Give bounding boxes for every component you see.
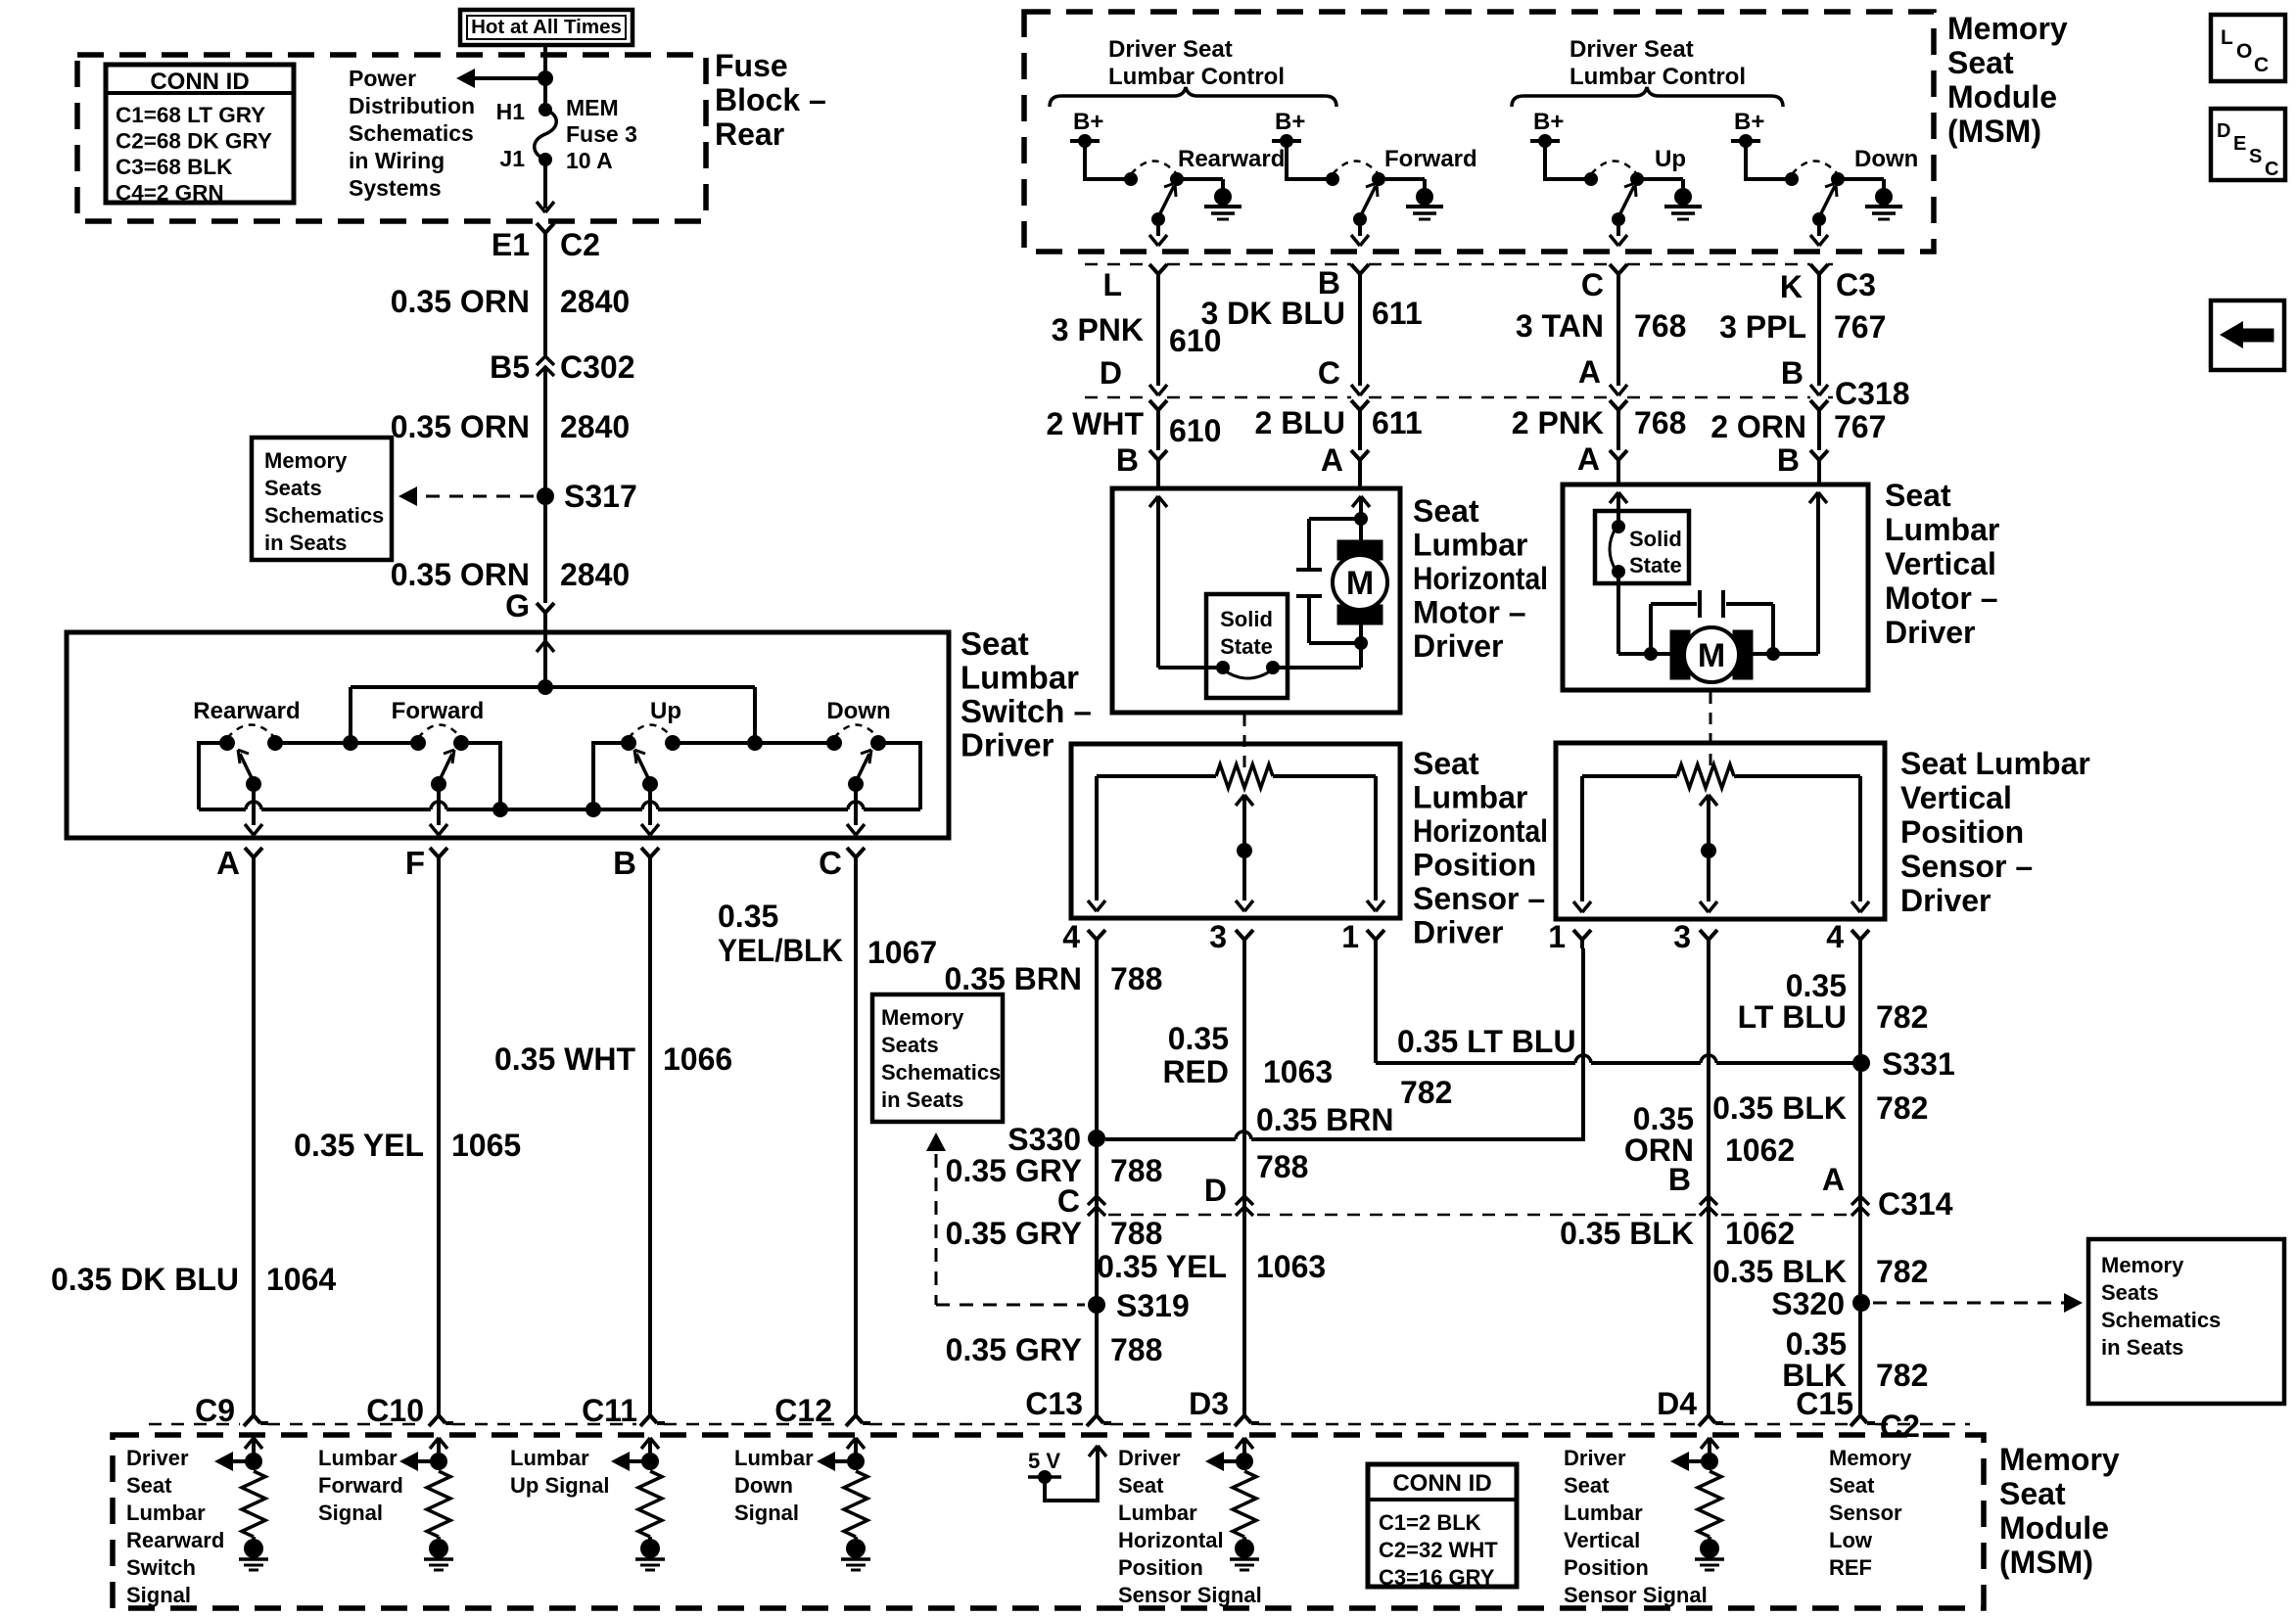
CONN ID table (fuse block) bbox=[106, 65, 294, 203]
svg-text:Rearward: Rearward bbox=[193, 698, 300, 724]
svg-text:Distribution: Distribution bbox=[349, 93, 475, 118]
svg-text:Lumbar Control: Lumbar Control bbox=[1108, 64, 1285, 90]
driver seat lumbar rearward switch signal input bbox=[245, 1438, 254, 1449]
motor M (horizontal) bbox=[1354, 636, 1368, 650]
svg-text:A: A bbox=[1577, 441, 1600, 477]
svg-text:2 BLU: 2 BLU bbox=[1255, 405, 1345, 440]
connector forks C9-C15 bbox=[244, 1415, 254, 1426]
svg-text:Motor –: Motor – bbox=[1885, 580, 1998, 616]
Forward movable contact bbox=[1353, 212, 1367, 226]
lumbar up signal input bbox=[641, 1438, 650, 1449]
svg-text:C3: C3 bbox=[1836, 267, 1876, 302]
svg-text:B: B bbox=[1781, 355, 1804, 391]
svg-text:Down: Down bbox=[734, 1473, 793, 1498]
svg-text:2 ORN: 2 ORN bbox=[1710, 409, 1806, 444]
wire sensor1 pin1 to S331 (0.35 LT BLU 782) bbox=[1374, 948, 1378, 1063]
svg-text:Up: Up bbox=[1655, 146, 1686, 172]
svg-text:0.35: 0.35 bbox=[1786, 968, 1847, 1003]
svg-text:Vertical: Vertical bbox=[1885, 546, 1996, 581]
potentiometer track (horizontal sensor) bbox=[1097, 774, 1216, 778]
svg-text:S: S bbox=[2249, 146, 2262, 167]
svg-text:782: 782 bbox=[1876, 1254, 1928, 1289]
svg-text:Block –: Block – bbox=[715, 82, 826, 117]
switch feed wire with up arrow bbox=[543, 632, 547, 687]
svg-text:Lumbar: Lumbar bbox=[1118, 1501, 1197, 1525]
svg-text:C12: C12 bbox=[774, 1393, 832, 1428]
switch pin A fork and wire bbox=[245, 848, 254, 857]
junction dot above fuse bbox=[538, 70, 553, 86]
suppression capacitor (horizontal motor) bbox=[1309, 517, 1361, 521]
svg-text:C: C bbox=[1318, 355, 1340, 391]
svg-text:Rearward: Rearward bbox=[1178, 146, 1285, 172]
svg-text:Lumbar: Lumbar bbox=[1413, 780, 1527, 815]
svg-text:0.35 BLK: 0.35 BLK bbox=[1712, 1090, 1847, 1126]
svg-text:Driver: Driver bbox=[1885, 615, 1976, 650]
svg-text:Low: Low bbox=[1829, 1528, 1873, 1552]
svg-text:0.35 DK BLU: 0.35 DK BLU bbox=[51, 1262, 239, 1297]
svg-text:K: K bbox=[1780, 269, 1803, 304]
brace 1 bbox=[1050, 87, 1336, 107]
svg-text:4: 4 bbox=[1826, 919, 1844, 954]
svg-text:D4: D4 bbox=[1657, 1386, 1697, 1421]
svg-text:Lumbar: Lumbar bbox=[734, 1446, 814, 1470]
splice S317 bbox=[537, 487, 554, 505]
svg-text:E: E bbox=[2233, 133, 2246, 155]
Memory Seats Schematics in Seats box (left) bbox=[252, 438, 392, 560]
svg-text:2840: 2840 bbox=[560, 409, 630, 444]
svg-text:S320: S320 bbox=[1771, 1286, 1845, 1321]
MSM connector C318 dashed line bbox=[1085, 396, 1149, 399]
svg-text:Position: Position bbox=[1118, 1555, 1203, 1580]
track left leg (v) bbox=[1580, 776, 1584, 901]
svg-text:Lumbar: Lumbar bbox=[1885, 512, 1999, 547]
svg-text:782: 782 bbox=[1876, 999, 1928, 1035]
svg-text:1063: 1063 bbox=[1263, 1054, 1333, 1089]
svg-text:L: L bbox=[1102, 267, 1122, 302]
svg-text:Memory: Memory bbox=[1829, 1446, 1912, 1470]
svg-text:Seat: Seat bbox=[1413, 746, 1479, 781]
svg-text:Schematics: Schematics bbox=[2101, 1308, 2221, 1332]
svg-text:Down: Down bbox=[826, 698, 890, 724]
motor M (vertical) bbox=[1670, 630, 1690, 679]
track right leg bbox=[1374, 776, 1378, 901]
svg-text:B: B bbox=[1777, 442, 1800, 478]
Down movable contact bbox=[1812, 212, 1826, 226]
svg-text:Lumbar: Lumbar bbox=[1564, 1501, 1643, 1525]
Down switch bbox=[826, 735, 842, 751]
Forward switch contacts bbox=[1326, 172, 1339, 186]
wire sensor2 pin4 down (LT BLU/BLK 782) bbox=[1858, 948, 1862, 1415]
bus junction dot bbox=[538, 679, 553, 695]
splice S320 bbox=[1852, 1294, 1870, 1312]
svg-text:C9: C9 bbox=[195, 1393, 235, 1428]
Seat Lumbar Switch - Driver box bbox=[67, 632, 949, 838]
svg-text:C2=32 WHT: C2=32 WHT bbox=[1379, 1538, 1498, 1562]
splice S330 bbox=[1088, 1130, 1105, 1147]
svg-text:Position: Position bbox=[1413, 848, 1536, 883]
svg-text:Memory: Memory bbox=[1999, 1442, 2120, 1477]
svg-text:Driver Seat: Driver Seat bbox=[1570, 36, 1694, 63]
pin K fork / connector C3 bbox=[1810, 264, 1819, 274]
svg-text:B+: B+ bbox=[1073, 109, 1103, 135]
wire 3 DK BLU 611 bbox=[1358, 283, 1362, 386]
wire 3 TAN 768 bbox=[1617, 283, 1620, 386]
svg-text:Seats: Seats bbox=[881, 1033, 939, 1057]
svg-text:Position: Position bbox=[1564, 1555, 1649, 1580]
svg-text:C: C bbox=[819, 845, 842, 881]
svg-text:Schematics: Schematics bbox=[349, 120, 474, 146]
svg-text:YEL/BLK: YEL/BLK bbox=[718, 933, 843, 968]
svg-text:B+: B+ bbox=[1275, 109, 1305, 135]
splice S319 bbox=[1088, 1296, 1105, 1314]
svg-text:B: B bbox=[1116, 442, 1139, 478]
svg-text:Driver: Driver bbox=[1900, 883, 1991, 918]
svg-text:Driver Seat: Driver Seat bbox=[1108, 36, 1233, 63]
C314 dashed connector line bbox=[1108, 1214, 1232, 1217]
track right leg (v) bbox=[1858, 776, 1862, 901]
svg-text:Position: Position bbox=[1900, 814, 2024, 850]
svg-text:Up Signal: Up Signal bbox=[510, 1473, 609, 1498]
svg-text:768: 768 bbox=[1634, 405, 1686, 440]
svg-text:Lumbar: Lumbar bbox=[961, 660, 1079, 696]
bottom connector dashed line bbox=[149, 1423, 240, 1426]
svg-text:C3=68 BLK: C3=68 BLK bbox=[116, 155, 233, 179]
sensor1 pin 4 bbox=[1088, 930, 1097, 940]
svg-text:Lumbar: Lumbar bbox=[1413, 528, 1527, 563]
svg-text:Driver: Driver bbox=[1413, 628, 1504, 664]
splice S331 bbox=[1852, 1054, 1870, 1072]
svg-text:0.35 WHT: 0.35 WHT bbox=[494, 1041, 635, 1077]
ground (Down) bbox=[1875, 188, 1893, 206]
svg-text:3: 3 bbox=[1209, 919, 1227, 954]
svg-text:Horizontal: Horizontal bbox=[1118, 1528, 1224, 1552]
solid state contacts bbox=[1216, 661, 1230, 674]
svg-text:Memory: Memory bbox=[1947, 11, 2068, 46]
suppression capacitor (vertical motor) bbox=[1649, 604, 1653, 654]
Hot at All Times box bbox=[460, 10, 633, 45]
pin C fork bbox=[1610, 264, 1618, 274]
svg-text:Seat: Seat bbox=[961, 625, 1029, 662]
svg-text:Horizontal: Horizontal bbox=[1413, 813, 1548, 849]
svg-text:0.35: 0.35 bbox=[1633, 1101, 1694, 1136]
svg-text:Up: Up bbox=[650, 698, 681, 724]
svg-text:M: M bbox=[1698, 637, 1725, 674]
svg-text:788: 788 bbox=[1110, 1216, 1162, 1251]
ground (Up) bbox=[1674, 188, 1692, 206]
svg-text:M: M bbox=[1346, 565, 1374, 602]
dashed arrow S319 to memory seats schematics (up) bbox=[935, 1154, 938, 1305]
Down switch contacts bbox=[1785, 172, 1799, 186]
MSM connector C3 dashed line bbox=[1085, 263, 1149, 266]
svg-text:C2: C2 bbox=[1880, 1409, 1920, 1444]
svg-text:C15: C15 bbox=[1796, 1386, 1853, 1421]
svg-text:611: 611 bbox=[1372, 405, 1423, 440]
wire 2 BLU 611 bbox=[1358, 419, 1362, 450]
Memory Seats Schematics in Seats box (right) bbox=[2088, 1239, 2284, 1404]
wire solid state to motor bbox=[1273, 666, 1361, 670]
svg-text:0.35 GRY: 0.35 GRY bbox=[946, 1216, 1082, 1251]
svg-text:Switch: Switch bbox=[126, 1555, 196, 1580]
Seat Lumbar Horizontal Position Sensor - Driver box bbox=[1071, 744, 1400, 918]
svg-text:768: 768 bbox=[1634, 308, 1686, 344]
svg-text:MEM: MEM bbox=[566, 95, 619, 120]
svg-text:S317: S317 bbox=[564, 479, 637, 514]
svg-text:Fuse: Fuse bbox=[715, 48, 788, 83]
svg-text:A: A bbox=[1321, 442, 1343, 478]
svg-text:0.35 YEL: 0.35 YEL bbox=[294, 1128, 424, 1163]
svg-text:Switch –: Switch – bbox=[961, 693, 1092, 729]
svg-text:C: C bbox=[1581, 267, 1604, 302]
svg-text:Sensor –: Sensor – bbox=[1413, 881, 1545, 916]
svg-text:0.35 ORN: 0.35 ORN bbox=[391, 557, 530, 592]
wire 2 WHT 610 bbox=[1156, 419, 1160, 450]
svg-text:A: A bbox=[1578, 354, 1601, 390]
dashed arrow to memory seats schematics bbox=[417, 495, 534, 498]
sensor2 pin 4 bbox=[1851, 930, 1860, 940]
svg-text:1062: 1062 bbox=[1725, 1216, 1795, 1251]
switch lower common line with jumps bbox=[199, 808, 246, 811]
svg-text:767: 767 bbox=[1834, 409, 1886, 444]
svg-text:C: C bbox=[2265, 159, 2278, 180]
svg-text:C302: C302 bbox=[560, 349, 635, 385]
svg-text:767: 767 bbox=[1834, 309, 1886, 345]
switch common bus bbox=[351, 685, 755, 689]
svg-text:4: 4 bbox=[1062, 919, 1080, 954]
dashed link vertical motor to sensor bbox=[1710, 692, 1712, 773]
svg-text:Signal: Signal bbox=[734, 1501, 799, 1525]
dashed link motor to position sensor bbox=[1243, 715, 1246, 773]
svg-text:2 WHT: 2 WHT bbox=[1046, 406, 1144, 441]
fuse MEM Fuse 3 10A bbox=[539, 103, 552, 116]
arrow to power distribution schematics bbox=[474, 76, 545, 80]
svg-text:782: 782 bbox=[1876, 1090, 1928, 1126]
solid state contacts (vertical) bbox=[1612, 520, 1625, 533]
svg-text:Schematics: Schematics bbox=[264, 503, 384, 528]
svg-text:C318: C318 bbox=[1835, 376, 1910, 411]
svg-text:CONN ID: CONN ID bbox=[150, 69, 249, 95]
wiper (vertical sensor) bbox=[1700, 795, 1709, 806]
svg-text:1: 1 bbox=[1341, 919, 1359, 954]
svg-text:Vertical: Vertical bbox=[1900, 780, 2012, 815]
svg-text:REF: REF bbox=[1829, 1555, 1872, 1580]
svg-text:C1=68 LT GRY: C1=68 LT GRY bbox=[116, 103, 265, 127]
svg-text:G: G bbox=[505, 588, 530, 624]
svg-text:Module: Module bbox=[1947, 79, 2057, 115]
svg-text:Forward: Forward bbox=[318, 1473, 403, 1498]
wire sensor2 pin3 down (ORN/BLK 1062) bbox=[1707, 948, 1710, 1415]
back arrow icon bbox=[2211, 300, 2284, 370]
connector C2 pin E1 fork bbox=[537, 223, 545, 233]
Seat Lumbar Vertical Motor - Driver box bbox=[1563, 485, 1868, 690]
driver seat lumbar horizontal position sensor signal input bbox=[1236, 1438, 1244, 1449]
svg-text:Seat Lumbar: Seat Lumbar bbox=[1900, 746, 2090, 781]
svg-text:Forward: Forward bbox=[392, 698, 485, 724]
Fuse Block - Rear dashed enclosure bbox=[77, 55, 706, 221]
wire from Hot at All Times into fuse block bbox=[543, 45, 547, 110]
svg-text:Module: Module bbox=[1999, 1510, 2109, 1546]
connector C314 pin D bbox=[1236, 1196, 1253, 1205]
svg-text:788: 788 bbox=[1110, 961, 1162, 996]
svg-text:C13: C13 bbox=[1025, 1386, 1083, 1421]
pin A internal arrow (vertical motor) bbox=[1610, 492, 1618, 503]
Down movable contact bbox=[848, 776, 864, 792]
motor pin A fork bbox=[1351, 450, 1360, 460]
svg-text:Seat: Seat bbox=[1564, 1473, 1610, 1498]
svg-text:L: L bbox=[2221, 26, 2233, 49]
svg-text:611: 611 bbox=[1372, 296, 1423, 331]
svg-text:Driver: Driver bbox=[961, 727, 1054, 763]
svg-text:in Seats: in Seats bbox=[881, 1087, 963, 1112]
svg-text:Hot at All Times: Hot at All Times bbox=[471, 16, 622, 38]
svg-text:LT BLU: LT BLU bbox=[1738, 999, 1847, 1035]
wire fuse to fuse block edge with arrow bbox=[543, 160, 547, 208]
svg-text:0.35: 0.35 bbox=[1168, 1021, 1229, 1056]
svg-text:3 PPL: 3 PPL bbox=[1719, 309, 1806, 345]
svg-text:C2=68 DK GRY: C2=68 DK GRY bbox=[116, 129, 272, 154]
svg-text:in Wiring: in Wiring bbox=[349, 148, 445, 173]
svg-text:1066: 1066 bbox=[663, 1041, 732, 1077]
svg-text:1062: 1062 bbox=[1725, 1132, 1795, 1168]
wire 3 PPL 767 bbox=[1817, 283, 1821, 386]
svg-text:(MSM): (MSM) bbox=[1999, 1545, 2093, 1580]
svg-text:C11: C11 bbox=[582, 1393, 637, 1428]
svg-text:782: 782 bbox=[1400, 1075, 1452, 1110]
svg-text:0.35 BLK: 0.35 BLK bbox=[1560, 1216, 1694, 1251]
bus left drop bbox=[349, 687, 352, 743]
motor right wire (vertical) bbox=[1753, 652, 1818, 656]
svg-text:CONN ID: CONN ID bbox=[1392, 1470, 1491, 1497]
wire 0.35 ORN 2840 (lower) bbox=[543, 496, 547, 603]
svg-text:J1: J1 bbox=[499, 146, 525, 171]
svg-text:0.35 BLK: 0.35 BLK bbox=[1712, 1254, 1847, 1289]
svg-text:D: D bbox=[1100, 355, 1122, 391]
svg-text:C2: C2 bbox=[560, 227, 600, 262]
ground (Rearward) bbox=[1214, 188, 1232, 206]
svg-text:Rearward: Rearward bbox=[126, 1528, 224, 1552]
svg-text:A: A bbox=[216, 845, 240, 881]
svg-text:Memory: Memory bbox=[881, 1005, 964, 1030]
svg-text:C: C bbox=[1057, 1183, 1080, 1219]
Up movable contact bbox=[1612, 212, 1625, 226]
svg-text:State: State bbox=[1220, 634, 1273, 659]
svg-text:S319: S319 bbox=[1116, 1288, 1190, 1323]
svg-text:Lumbar: Lumbar bbox=[126, 1501, 206, 1525]
svg-text:Seat: Seat bbox=[1947, 45, 2014, 80]
svg-text:Sensor Signal: Sensor Signal bbox=[1118, 1583, 1262, 1607]
Solid State box (horizontal motor) bbox=[1206, 594, 1288, 698]
motor pin B fork (vertical) bbox=[1810, 450, 1819, 460]
wire 2 PNK 768 bbox=[1617, 419, 1620, 450]
svg-text:0.35 BRN: 0.35 BRN bbox=[945, 961, 1083, 996]
svg-text:1063: 1063 bbox=[1256, 1249, 1326, 1284]
svg-text:782: 782 bbox=[1876, 1358, 1928, 1393]
lumbar forward signal input bbox=[430, 1438, 439, 1449]
svg-text:1: 1 bbox=[1548, 919, 1566, 954]
svg-text:H1: H1 bbox=[496, 99, 526, 124]
svg-text:Forward: Forward bbox=[1384, 146, 1477, 172]
pin C arrow and fork bbox=[1351, 385, 1360, 395]
svg-text:3 DK BLU: 3 DK BLU bbox=[1200, 296, 1345, 331]
svg-text:Solid: Solid bbox=[1629, 527, 1682, 551]
Rearward switch bbox=[219, 735, 235, 751]
svg-text:RED: RED bbox=[1162, 1054, 1229, 1089]
svg-text:788: 788 bbox=[1256, 1149, 1308, 1184]
svg-text:Fuse 3: Fuse 3 bbox=[566, 121, 637, 147]
svg-text:Seat: Seat bbox=[1413, 493, 1479, 529]
Up switch contacts bbox=[1584, 172, 1598, 186]
Seat Lumbar Horizontal Motor - Driver box bbox=[1112, 488, 1400, 713]
svg-text:O: O bbox=[2236, 40, 2252, 63]
pin A arrow and fork bbox=[1610, 385, 1618, 395]
svg-text:D3: D3 bbox=[1189, 1386, 1229, 1421]
svg-text:3 TAN: 3 TAN bbox=[1516, 308, 1604, 344]
svg-text:5 V: 5 V bbox=[1028, 1449, 1060, 1473]
wire 2 ORN 767 bbox=[1817, 419, 1821, 450]
svg-text:2840: 2840 bbox=[560, 284, 630, 319]
Memory Seat Module (MSM) top dashed box bbox=[1024, 12, 1934, 252]
svg-text:Motor –: Motor – bbox=[1413, 595, 1526, 630]
svg-text:1065: 1065 bbox=[451, 1128, 521, 1163]
svg-text:Seats: Seats bbox=[2101, 1280, 2159, 1305]
ground (Forward) bbox=[1416, 188, 1433, 206]
svg-text:0.35: 0.35 bbox=[718, 899, 778, 934]
Forward movable contact bbox=[431, 776, 446, 792]
sensor1 pin 3 bbox=[1236, 930, 1244, 940]
svg-text:B+: B+ bbox=[1734, 109, 1764, 135]
pin B internal arrow and wire bbox=[1149, 496, 1158, 507]
pin L fork bbox=[1149, 264, 1158, 274]
motor top wire junction bbox=[1359, 496, 1363, 540]
Rearward movable contact bbox=[1151, 212, 1165, 226]
svg-text:B: B bbox=[1668, 1162, 1691, 1197]
wire sensor1 pin3 down (RED/YEL 1063) bbox=[1242, 948, 1246, 1415]
svg-text:Driver: Driver bbox=[1564, 1446, 1626, 1470]
svg-text:Vertical: Vertical bbox=[1564, 1528, 1640, 1552]
svg-text:Power: Power bbox=[349, 66, 416, 91]
svg-text:(MSM): (MSM) bbox=[1947, 114, 2041, 149]
dashed arrow S320 to memory seats schematics bbox=[1873, 1302, 2064, 1305]
svg-text:Schematics: Schematics bbox=[881, 1060, 1001, 1085]
sensor2 pin 1 bbox=[1573, 930, 1582, 940]
svg-text:Sensor Signal: Sensor Signal bbox=[1564, 1583, 1708, 1607]
svg-text:0.35 LT BLU: 0.35 LT BLU bbox=[1397, 1024, 1576, 1059]
wire 0.35 ORN 2840 (middle) bbox=[543, 367, 547, 496]
connector C314 pin B bbox=[1700, 1196, 1717, 1205]
svg-text:in Seats: in Seats bbox=[264, 531, 347, 555]
Up switch bbox=[621, 735, 636, 751]
svg-text:0.35 ORN: 0.35 ORN bbox=[391, 284, 530, 319]
svg-text:C314: C314 bbox=[1878, 1186, 1953, 1222]
Forward switch bbox=[410, 735, 426, 751]
svg-text:E1: E1 bbox=[492, 227, 530, 262]
svg-text:2840: 2840 bbox=[560, 557, 630, 592]
svg-text:Down: Down bbox=[1854, 146, 1918, 172]
svg-text:Seat: Seat bbox=[1999, 1476, 2066, 1511]
Memory Seat Module (MSM) bottom dashed box bbox=[113, 1435, 1984, 1608]
brace 2 bbox=[1512, 87, 1783, 107]
switch pin F fork and wire bbox=[430, 848, 439, 857]
pin B arrow and fork / connector C318 bbox=[1810, 385, 1819, 395]
connector C314 pin C bbox=[1088, 1196, 1105, 1205]
svg-text:1064: 1064 bbox=[266, 1262, 336, 1297]
svg-text:B: B bbox=[613, 845, 636, 881]
svg-text:Solid: Solid bbox=[1220, 607, 1273, 631]
svg-text:Sensor –: Sensor – bbox=[1900, 849, 2033, 884]
svg-text:F: F bbox=[405, 845, 425, 881]
svg-text:Seat: Seat bbox=[1118, 1473, 1164, 1498]
svg-text:788: 788 bbox=[1110, 1153, 1162, 1188]
svg-text:10 A: 10 A bbox=[566, 148, 613, 173]
